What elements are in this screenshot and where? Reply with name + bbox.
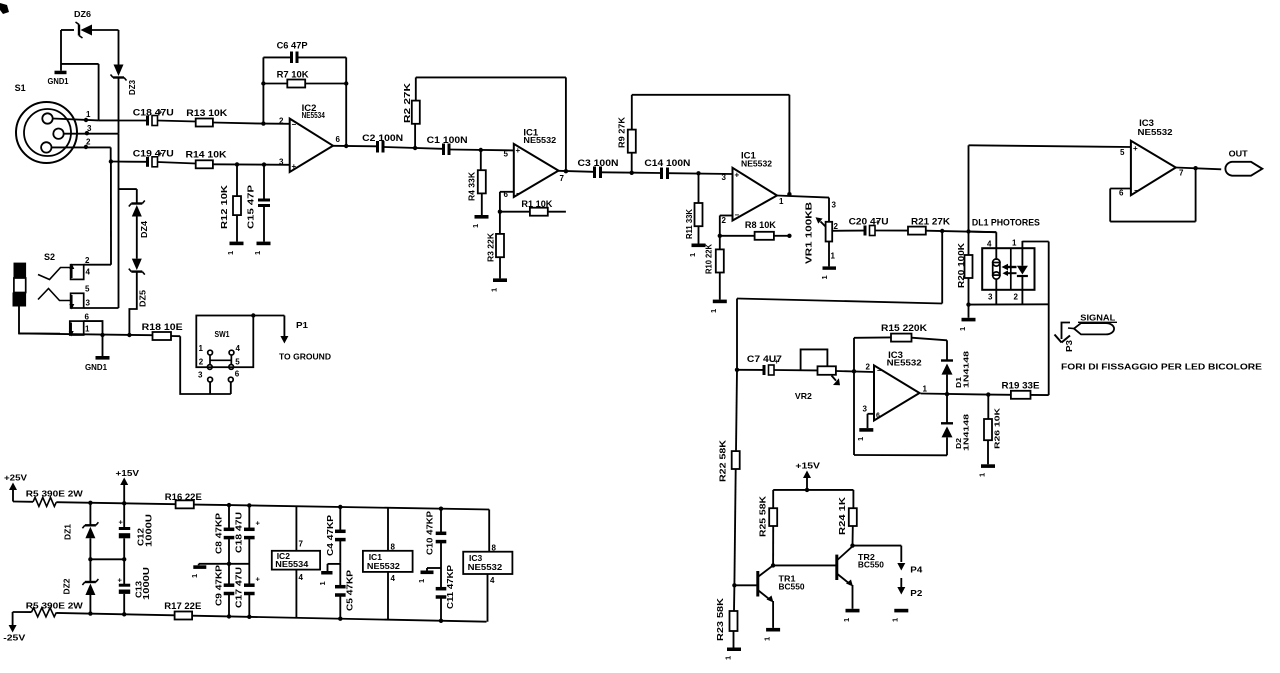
wire bottom rail left [56,613,174,615]
junction box3 [100,333,104,337]
svg-text:GND1: GND1 [48,76,69,86]
XLR connector S1 [15,83,77,163]
switch SW1 [196,316,253,383]
ground R12 [226,215,244,255]
svg-text:2: 2 [722,216,727,225]
IC3 supply box [463,552,512,574]
svg-text:NE5534: NE5534 [275,559,308,569]
wire R22 column [736,370,737,451]
svg-text:3: 3 [279,158,284,167]
wire DZ6 to DZ3 [118,30,120,65]
svg-text:1: 1 [831,252,836,261]
svg-text:C10 47KP: C10 47KP [425,510,434,555]
capacitor C11 [436,564,455,621]
svg-text:NE5534: NE5534 [302,111,326,120]
wire DZ1 to tie [89,538,91,559]
resistor R13 [158,108,264,127]
wire C7 row [737,369,763,371]
op-amp IC3 NE5532 comparator [866,350,928,421]
junction R26 node [986,392,990,396]
ground mid tie 1 [190,564,206,578]
svg-text:C4 47KP: C4 47KP [326,514,335,556]
junction R7 left [261,81,265,85]
resistor R19 [988,381,1048,399]
capacitor C15 [246,165,270,229]
svg-text:1: 1 [724,656,733,660]
LED light arrows [1002,264,1017,276]
junction DZ5 R18 row [127,333,131,337]
svg-text:1: 1 [779,197,784,206]
label +15V supply [116,468,140,503]
wire DZ5 to R18 row [129,272,136,335]
diode D1 [941,340,970,394]
capacitor C4 [326,507,346,562]
svg-text:R14 10K: R14 10K [186,149,228,159]
capacitor C2 [362,133,403,153]
junction SW1 top [251,313,255,317]
junction DL1 bottom [966,302,970,306]
wire C14 to IC1 pin3 [669,172,733,175]
svg-text:GND1: GND1 [85,362,107,372]
ground R4 [471,193,489,228]
svg-text:6: 6 [235,370,240,379]
IC2 pin7 lead [296,506,303,551]
op-amp IC1 NE5532 first half [504,127,565,199]
phone jack S2 [13,252,56,307]
svg-text:2: 2 [1014,293,1019,302]
junction pin1 [84,118,88,122]
svg-text:8: 8 [391,543,396,552]
svg-text:1: 1 [85,325,90,334]
IC2 supply box [272,551,320,570]
svg-text:P1: P1 [296,320,308,330]
junction R12 [235,162,239,166]
svg-text:3: 3 [832,201,837,210]
capacitor C20 [832,216,888,235]
wire R13 to IC2 pin2 [263,123,290,125]
wire DZ2 to bottom rail [89,595,91,614]
svg-text:1: 1 [417,579,426,583]
junction R7 right [344,81,348,85]
capacitor C9 [214,564,234,617]
junction C9 bottom [227,614,231,618]
svg-text:R19 33E: R19 33E [1002,381,1040,391]
ground R10 [709,273,727,314]
svg-text:6: 6 [876,413,880,420]
wire feedback left C6 [262,57,264,123]
capacitor C18 supply [234,505,260,563]
IC3 pin8 lead [489,510,496,553]
ground R23 [724,631,742,660]
ground TR1 emitter [763,628,781,641]
svg-text:R15 220K: R15 220K [881,323,928,333]
junction TR1 collector [771,563,775,567]
junction C12 bottom [122,557,126,561]
capacitor C14 [644,158,690,179]
label -25V [3,612,25,643]
wire IC3 feedback [1110,168,1195,222]
junction TR2 collector [850,543,854,547]
wire DZ3 down [118,78,120,134]
S2 contact lever 1 [38,268,71,280]
svg-text:R18 10E: R18 10E [142,322,183,332]
svg-text:NE5532: NE5532 [468,562,503,572]
junction C10 top [439,506,443,510]
svg-text:C15 47P: C15 47P [246,185,256,229]
wire node to DL1 pin4 [969,231,997,234]
wire feedback left vertical [853,338,855,455]
svg-text:R17 22E: R17 22E [164,601,201,611]
svg-text:R5 390E 2W: R5 390E 2W [26,488,84,498]
wire pin3 row [64,133,119,135]
ground R11 [688,226,706,257]
wire bottom rail decoupling [229,616,487,621]
svg-text:1: 1 [923,385,928,394]
wire IC1 pin6 [500,192,514,212]
svg-text:C2 100N: C2 100N [362,133,403,143]
transistor TR2 BC550 [837,546,884,609]
junction C5 bottom [338,617,342,621]
wire feedback right [345,57,347,146]
junction C15 [262,162,266,166]
svg-text:+: + [292,162,297,171]
svg-text:OUT: OUT [1229,149,1249,159]
junction C11 bottom [439,619,443,623]
svg-text:C17 47U: C17 47U [234,567,243,608]
svg-text:1N4148: 1N4148 [961,414,970,451]
wire top rail decoupling [229,505,489,509]
wire S2 box3 pin6 [84,321,103,335]
DL1 photoresistor element [993,259,1000,279]
svg-text:1: 1 [842,618,851,622]
LED inside DL1 [1017,266,1028,276]
svg-text:C8 47KP: C8 47KP [214,512,223,554]
DL1 pin 4 lead [987,232,996,260]
resistor R26 [984,395,1001,449]
zener DZ1 [63,503,99,540]
wire pin2 column down [110,162,112,265]
wire pin1 [53,119,119,121]
svg-text:8: 8 [492,544,497,553]
svg-text:DZ3: DZ3 [127,80,137,95]
svg-text:TO GROUND: TO GROUND [279,351,331,361]
svg-text:1: 1 [958,327,967,331]
svg-text:BC550: BC550 [779,582,805,592]
junction C12 top [122,501,126,505]
junction R4 top [479,148,483,152]
svg-text:1000U: 1000U [144,514,154,547]
svg-text:1: 1 [820,275,829,279]
label +15V rail [795,461,820,490]
ground R20 [958,278,976,331]
resistor R23 [715,585,737,641]
junction mid tie [227,562,231,566]
svg-text:NE5532: NE5532 [741,159,773,168]
svg-text:5: 5 [1120,148,1125,157]
svg-text:P3: P3 [1065,339,1074,352]
resistor R1 [500,199,566,216]
svg-text:1: 1 [763,637,772,641]
IC1 supply box [363,551,413,572]
resistor R6 zigzag [13,600,84,617]
svg-text:C6 47P: C6 47P [277,41,308,51]
label +25V [4,473,27,502]
svg-text:R7 10K: R7 10K [277,70,310,80]
diode D2 [941,394,970,455]
svg-text:4: 4 [86,268,91,277]
wire C3 to C14 [602,171,660,174]
wire IC3a output [921,394,989,395]
ground GND1 second [85,335,110,372]
svg-text:6: 6 [1119,189,1124,198]
svg-text:+15V: +15V [116,468,140,478]
svg-text:DZ2: DZ2 [62,578,72,594]
wire node down to C7 row [737,231,942,370]
svg-text:R1 10K: R1 10K [521,199,553,209]
capacitor C7 [747,354,782,375]
wire top rail [56,502,175,504]
svg-text:2: 2 [866,363,871,372]
S2 contact box pins 6-1 [69,313,90,337]
zener DZ2 [62,559,99,595]
svg-text:R5 390E 2W: R5 390E 2W [26,600,84,610]
diode DZ6 [74,9,119,38]
svg-text:1: 1 [688,253,697,257]
capacitor C3 [578,158,619,178]
svg-text:R26 10K: R26 10K [992,407,1001,449]
svg-text:1: 1 [190,574,199,578]
wire R19 up to DL1 pin1 [1048,242,1050,396]
svg-text:6: 6 [85,313,90,322]
svg-text:S2: S2 [44,252,55,262]
wire VR2 to IC3a pin2 [836,371,874,372]
resistor R22 [718,439,740,482]
potentiometer VR1 [804,198,839,267]
junction pin2 node [852,369,856,373]
ground P2 [891,609,909,622]
svg-text:R10 22K: R10 22K [704,243,714,274]
resistor R15 [854,323,947,342]
resistor R7 [263,70,346,88]
junction DZ1 bottom [88,557,92,561]
wire DZ4 to DZ5 [136,217,138,259]
junction C7 [735,368,739,372]
svg-text:DZ4: DZ4 [139,221,149,238]
capacitor C1 [427,135,468,155]
wire mid ground tie 2 [328,563,341,565]
svg-text:R25 58K: R25 58K [758,495,768,537]
node R21 out [940,229,944,233]
svg-text:3: 3 [988,293,993,302]
wire jack sleeve to ground row [19,307,60,334]
connector P2 arrow [897,578,922,598]
junction C17 bottom [247,615,251,619]
resistor R8 [720,220,790,240]
svg-text:R24 1K: R24 1K [837,496,847,535]
svg-text:DZ1: DZ1 [63,524,73,540]
wire IC1b output [777,196,829,198]
svg-text:R23 58K: R23 58K [715,597,725,641]
wire mid ground tie 3 [427,567,441,569]
resistor R25 [758,490,777,566]
diode DZ4 [129,201,149,239]
resistor R10 [704,236,724,274]
wire DZ6 left leg [61,30,74,71]
wire C7 to VR2 [774,369,818,371]
op-amp IC2 NE5534 [279,103,341,172]
junction R8 right [787,234,791,238]
svg-text:+: + [118,576,123,585]
wire R18 to SW1 bottom [180,336,231,394]
junction R9 bottom [630,171,634,175]
wire branch to DZ4 [119,189,137,203]
wire R2 top rail [416,77,566,172]
wire DL1 bottom [969,303,1049,305]
svg-text:C18 47U: C18 47U [133,108,174,118]
svg-text:R11 33K: R11 33K [684,208,694,239]
capacitor C17 [234,564,260,617]
junction R20 top [966,229,970,233]
optocoupler DL1 PHOTORES [972,218,1040,290]
resistor R4 [467,150,486,201]
svg-text:1: 1 [86,110,91,119]
trimmer VR2 [795,349,840,401]
junction R11 top [696,171,700,175]
wire SW1 pin6 stub [230,382,232,394]
wire IC1 output [559,171,594,172]
svg-text:4: 4 [987,240,992,249]
svg-text:4: 4 [391,574,396,583]
svg-text:NE5532: NE5532 [523,136,556,145]
ground mid tie 3 [417,568,434,583]
op-amp IC3 NE5532 buffer [1119,118,1184,197]
svg-text:7: 7 [560,174,565,183]
svg-text:C9 47KP: C9 47KP [214,564,223,606]
svg-text:FORI DI FISSAGGIO PER LED BICO: FORI DI FISSAGGIO PER LED BICOLORE [1061,362,1262,372]
capacitor C10 [425,509,446,568]
junction TR1 base [732,583,736,587]
capacitor C12 [119,503,154,559]
junction DZ2 bottom [88,611,92,615]
resistor R12 [219,164,241,229]
capacitor C6 [263,41,346,64]
svg-text:+: + [119,518,124,527]
junction C13 bottom [122,612,126,616]
svg-text:C11 47KP: C11 47KP [446,564,455,609]
wire collector node to P4 [853,546,902,562]
svg-text:R8 10K: R8 10K [745,220,777,230]
junction C8 top [227,503,231,507]
resistor R24 [837,490,857,546]
svg-text:2: 2 [199,358,204,367]
svg-text:P4: P4 [910,565,922,575]
svg-text:DZ5: DZ5 [138,290,148,307]
wire C1 to IC1 pin5 [451,149,514,152]
ground R26 [978,440,996,477]
junction R2 bottom [413,146,417,150]
wire comparator bottom [854,454,947,456]
wire IC1b pin2 [720,216,733,236]
svg-text:−: − [1134,186,1139,195]
svg-text:SIGNAL: SIGNAL [1080,312,1115,322]
diode DZ5 [129,259,148,307]
IC1 pin4 lead [388,572,396,620]
connector P4 arrow [897,563,922,575]
svg-text:C19 47U: C19 47U [133,149,174,159]
wire zener tie [90,558,124,560]
svg-text:1: 1 [471,224,480,228]
svg-text:+15V: +15V [795,461,820,471]
wire +15V rail [773,489,853,491]
svg-text:1: 1 [1012,239,1017,248]
svg-text:R4 33K: R4 33K [467,171,477,201]
svg-text:7: 7 [1179,169,1184,178]
wire ground row [19,333,153,335]
connector OUT [1225,149,1262,176]
resistor R21 [875,216,996,234]
svg-text:1: 1 [199,344,204,353]
svg-text:1: 1 [253,251,262,255]
svg-text:VR2: VR2 [795,391,812,401]
junction pin2 feedback [261,121,265,125]
DL1 pin 1 lead [1012,239,1049,266]
junction C4 top [338,505,342,509]
svg-text:+: + [256,575,261,584]
junction D column [945,392,949,396]
svg-text:+: + [516,146,521,155]
svg-text:1000U: 1000U [141,567,151,600]
svg-text:2: 2 [85,256,90,265]
resistor R3 [486,212,504,262]
svg-text:C14 100N: C14 100N [644,158,690,168]
svg-text:4: 4 [490,576,495,585]
svg-text:DZ6: DZ6 [74,9,91,19]
svg-text:R20 100K: R20 100K [957,243,966,288]
svg-text:3: 3 [863,405,868,414]
junction R1 left [498,210,502,214]
svg-text:1: 1 [490,288,499,292]
connector P1 arrow [279,316,331,362]
resistor R14 [158,149,290,168]
resistor R18 [142,322,183,340]
capacitor C13 [118,559,152,614]
capacitor C8 [214,505,234,564]
svg-text:P2: P2 [910,588,922,598]
svg-text:5: 5 [504,150,509,159]
wire IC3 output [1176,168,1221,170]
svg-text:+: + [1133,144,1138,153]
resistor R11 [684,173,702,239]
resistor R17 [164,601,229,619]
svg-text:R21 27K: R21 27K [911,216,951,226]
connector P3 arrow [1055,323,1075,353]
resistor R2 [402,77,420,148]
svg-text:−: − [877,366,882,375]
svg-text:5: 5 [85,285,90,294]
resistor R16 [165,492,229,509]
svg-text:VR1 100KB: VR1 100KB [804,202,814,264]
svg-text:1: 1 [856,437,865,441]
svg-text:C1 100N: C1 100N [427,135,468,145]
ground VR1 [820,266,836,279]
svg-text:5: 5 [235,358,240,367]
svg-text:3: 3 [86,299,91,308]
resistor R9 [617,95,636,173]
wire TR1 collector to TR2 base [773,564,836,566]
svg-text:C3 100N: C3 100N [578,158,619,168]
junction pin2 [84,145,88,149]
wire SW1 top to P1 [253,315,284,317]
